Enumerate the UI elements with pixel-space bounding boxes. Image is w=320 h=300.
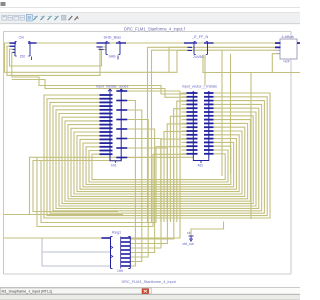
net D2b: E_FF stub riser xyxy=(169,47,188,72)
toolbar icons group 2 (draw tools) xyxy=(34,16,38,20)
toolbar icon selected xyxy=(26,14,32,21)
net Y53 tail to sheet edge xyxy=(272,72,300,74)
net Wd: Cin tick2 loop to vector input pin1 xyxy=(12,52,187,94)
Cin clk ticks xyxy=(13,48,16,51)
H2F tick 4 xyxy=(277,53,281,55)
component E_FF (flop symbol) xyxy=(193,42,195,55)
component SHD_Bias (flop symbol) xyxy=(105,42,107,55)
net Y53: H2F tick4 loop to E_FF bottom pin xyxy=(203,54,277,73)
vector tristate left pin stubs xyxy=(182,92,187,94)
svg-text:DRC_FLM1_Stanforme_4_input: DRC_FLM1_Stanforme_4_input xyxy=(122,280,177,284)
net W50: long enable rail to H2F tick3 xyxy=(152,50,277,222)
svg-text:1H6: 1H6 xyxy=(117,269,123,273)
input_tristate left rail xyxy=(109,89,111,161)
schematic sheet border xyxy=(3,32,5,275)
H2F output pin xyxy=(297,42,300,44)
net W47: long enable rail to H2F pin2 xyxy=(148,47,276,222)
net E_FF bottom pin 2 riser xyxy=(204,55,206,86)
component Cin (input flop symbol) xyxy=(14,42,16,57)
H2F tick 3 xyxy=(277,49,281,51)
svg-text:4-bBub: 4-bBub xyxy=(282,35,294,39)
net H1: long wire to Reg1 pin xyxy=(4,237,103,239)
svg-text:150: 150 xyxy=(20,55,26,59)
tab close button xyxy=(142,289,149,294)
net Wa: Cin pin1 long loop to E_FF stub xyxy=(5,43,188,72)
input_tristate output pins (8) xyxy=(116,90,127,92)
SHD ce stubs xyxy=(97,46,103,47)
net branch riser 3 (H2F feed) xyxy=(250,73,252,220)
H2F pin 1 xyxy=(275,42,281,44)
toolbar band xyxy=(0,13,300,24)
vector tristate pin rows (17 x 2) xyxy=(187,92,198,94)
svg-text:Cin: Cin xyxy=(19,36,25,40)
toolbar icons group 1 xyxy=(2,15,6,20)
Cin pin I xyxy=(10,42,17,44)
E_FF ce stubs xyxy=(188,47,193,48)
input_tristate input pins (17) xyxy=(100,94,113,96)
Reg1 enable nets (light) xyxy=(41,238,43,266)
Reg1 output pins (8) xyxy=(121,237,131,239)
net Wc: Cin tick1 loop to SHD clk stub xyxy=(10,49,107,66)
toolbar wand icons xyxy=(69,16,73,20)
svg-text:M1_Snapframe_-t_input (RTL1): M1_Snapframe_-t_input (RTL1) xyxy=(2,290,53,294)
vector tristate bottom bracket xyxy=(193,158,209,161)
E_FF pin Q xyxy=(204,42,214,43)
H2F pin 2 xyxy=(275,47,281,49)
status bar xyxy=(0,293,300,295)
input_tristate right rail xyxy=(120,89,122,161)
toolbar icon group 3 xyxy=(62,15,66,20)
Cin bottom stub xyxy=(31,57,33,61)
Reg1 pin D0 xyxy=(102,237,111,239)
port ck symbol xyxy=(189,235,194,237)
clock wrap wire A xyxy=(30,157,194,214)
titlebar icon xyxy=(1,2,6,6)
vector tristate right rail xyxy=(208,92,210,159)
svg-text:_E_FF_N: _E_FF_N xyxy=(191,35,209,39)
SHD pin D xyxy=(97,42,110,43)
svg-text:Reg1: Reg1 xyxy=(112,231,121,235)
component Reg1 (register) xyxy=(110,237,112,269)
svg-text:H2F: H2F xyxy=(284,60,290,64)
bundle C: right tristate input drop wires (9 wires) xyxy=(180,94,187,223)
svg-text:SHB: SHB xyxy=(109,55,117,59)
svg-text:b01: b01 xyxy=(111,164,117,168)
Reg1 clk ce marks xyxy=(111,246,113,249)
tab bar top border xyxy=(0,287,300,289)
net branch riser 1 xyxy=(221,50,223,176)
active document tab outline xyxy=(0,288,151,294)
SHD bottom stub xyxy=(117,56,119,60)
svg-text:462: 462 xyxy=(198,164,204,168)
svg-text:input_tristate_opues: input_tristate_opues xyxy=(96,85,129,89)
menubar separator xyxy=(0,7,300,9)
E_FF pin D xyxy=(184,42,197,43)
net branch riser 2 xyxy=(230,54,232,173)
svg-text:DRC_FLM1_Stanforme_4_input.f: DRC_FLM1_Stanforme_4_input.f xyxy=(124,26,186,31)
bundle B: left tristate outputs down to Reg1 D inputs (8 wires) xyxy=(128,91,181,238)
net Wf: parallel loop to vector input pin2 xyxy=(12,80,187,98)
bundle C wrap wire 9 xyxy=(37,154,187,226)
svg-text:SHD_Bias: SHD_Bias xyxy=(104,36,122,40)
Cin pin CE xyxy=(10,46,16,47)
svg-text:ck: ck xyxy=(187,231,191,235)
vector tristate left rail xyxy=(192,92,194,159)
bus loop bundle A: tristate feedback nets (17 wires) xyxy=(44,93,270,218)
Cin pin O xyxy=(28,42,37,43)
net long bottom rail xyxy=(4,214,124,216)
svg-text:244/B3: 244/B3 xyxy=(193,55,204,59)
Reg1 right rail xyxy=(129,237,131,269)
component U_H2F (block) xyxy=(280,39,297,59)
SHD pin Q xyxy=(116,42,126,43)
bundle C wrap wire 8 xyxy=(41,147,187,223)
net Wb: Cin pin2 loop to SHD ce stub xyxy=(7,46,106,75)
net: main rail y=43 xyxy=(35,42,296,44)
svg-text:input_vector_i_tristate: input_vector_i_tristate xyxy=(182,85,217,89)
clock wrap wire B xyxy=(33,161,121,212)
tab bar row xyxy=(0,288,300,294)
net ck: clock wire to port xyxy=(191,222,224,236)
svg-text:cbt_out: cbt_out xyxy=(183,242,194,246)
input_tristate bottom bracket xyxy=(110,158,121,161)
